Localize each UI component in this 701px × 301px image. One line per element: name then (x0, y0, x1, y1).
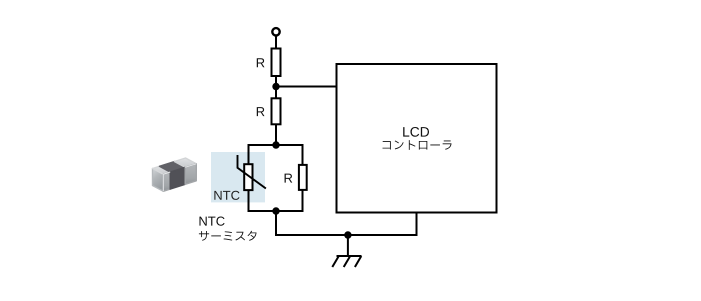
ground junction node (344, 231, 351, 238)
label R2 (257, 107, 265, 116)
LCD controller box U1 (337, 64, 497, 213)
label LCD (403, 127, 429, 137)
caption thermistor katakana (199, 231, 257, 241)
chip edge highlight top/front right cap (185, 164, 196, 168)
ground symbol (332, 235, 361, 267)
wire parallel-section loop (249, 145, 303, 211)
node junction J2 top of parallel section (272, 141, 279, 148)
resistor R1 (272, 49, 281, 77)
chip front face body (170, 167, 185, 189)
label NTC (inside highlight) (214, 191, 239, 200)
chip top face body (159, 162, 185, 173)
chip edge highlight end/front (162, 174, 164, 191)
power terminal circle (272, 28, 279, 35)
wire main vertical from terminal down to parallel section (275, 33, 277, 146)
chip end face left (153, 169, 164, 192)
node junction J3 bottom of parallel section (272, 207, 279, 214)
wire bottom node to LCD controller bottom (276, 211, 417, 235)
label R1 (257, 58, 265, 67)
chip top face right cap (174, 158, 196, 167)
node junction J1 (272, 83, 279, 90)
chip edge highlight top/front left cap (163, 172, 170, 174)
caption NTC thermistor line1 (199, 217, 224, 226)
label R3 (285, 174, 293, 183)
resistor R2 (272, 98, 281, 124)
chip top face left cap (153, 166, 171, 174)
resistor R3 parallel branch (299, 165, 307, 190)
thermistor NTC bent diagonal stroke (238, 155, 266, 189)
label controller katakana (383, 140, 452, 150)
chip photo: NTC thermistor SMD component (153, 158, 197, 191)
thermistor NTC body (244, 164, 252, 190)
chip front face right cap (185, 164, 196, 185)
chip front face left cap (163, 172, 170, 191)
NTC highlight box (211, 152, 265, 202)
wire junction J1 to LCD controller left side (276, 86, 336, 88)
